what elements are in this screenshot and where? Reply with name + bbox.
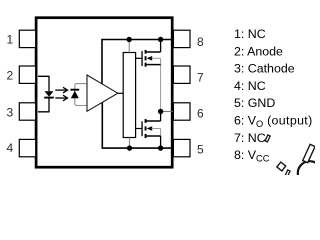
svg-text:8: VCC: 8: VCC (234, 148, 270, 163)
svg-text:3: Cathode: 3: Cathode (234, 62, 295, 76)
svg-text:5: GND: 5: GND (234, 96, 275, 110)
svg-text:1: 1 (7, 33, 14, 47)
svg-text:6: VO (output): 6: VO (output) (234, 114, 313, 129)
svg-text:2: 2 (7, 68, 14, 82)
svg-text:7: 7 (197, 71, 204, 85)
svg-text:8: 8 (197, 35, 204, 49)
svg-text:6: 6 (197, 107, 204, 121)
svg-text:4: 4 (7, 141, 14, 155)
svg-text:4: NC: 4: NC (234, 79, 266, 93)
svg-text:2: Anode: 2: Anode (234, 44, 283, 58)
svg-text:7: NC: 7: NC (234, 131, 266, 145)
svg-text:1: NC: 1: NC (234, 27, 266, 41)
svg-text:3: 3 (7, 105, 14, 119)
svg-text:5: 5 (197, 143, 204, 157)
